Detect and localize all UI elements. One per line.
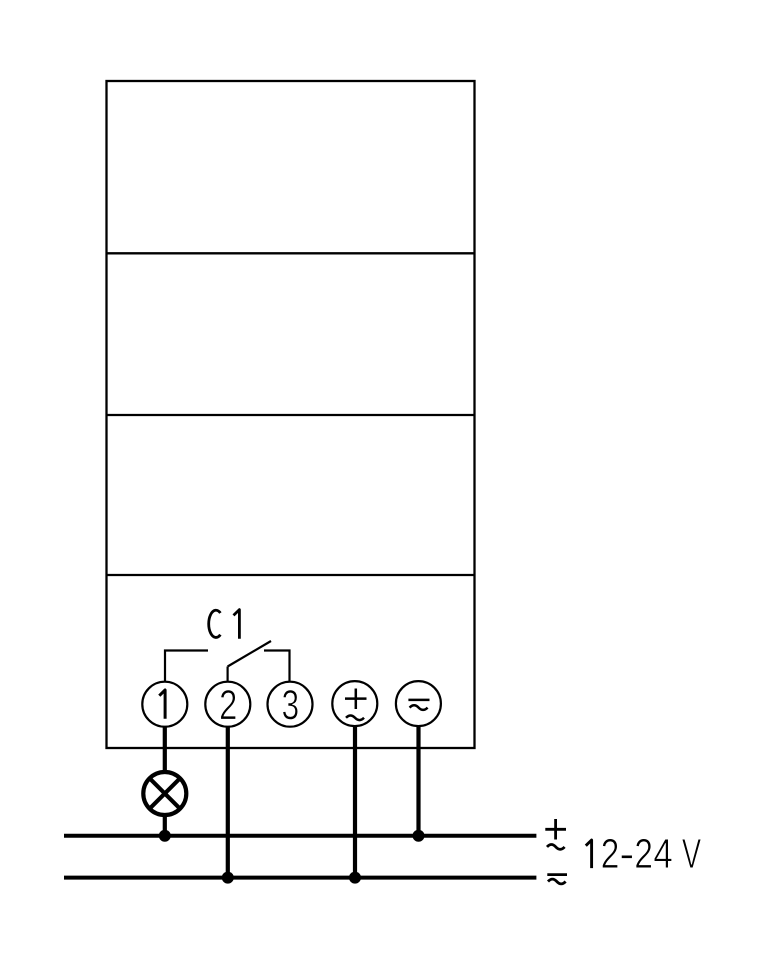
wire: terminal 2 to -/~ bus (226, 727, 230, 878)
label + on upper bus (545, 819, 566, 849)
lamp (143, 772, 186, 815)
junction dot +/~ wire lower bus (349, 872, 361, 884)
terminal -/~ (396, 681, 441, 726)
switch C1 contact bracket right (terminal 3) (264, 651, 290, 682)
pin number 2 (221, 690, 236, 719)
label 12-24 V (586, 840, 592, 868)
device module outline (107, 81, 475, 748)
switch C1 pivot wire (terminal 2) (227, 667, 229, 682)
switch C1 contact bracket left (terminal 1) (165, 651, 208, 682)
junction dot lamp/bus (159, 830, 171, 842)
pin number 1 (159, 690, 165, 719)
wire: terminal +/~ to lower bus (353, 726, 357, 878)
label - ~ on lower bus (547, 875, 567, 884)
junction dot -/~ wire upper bus (413, 830, 425, 842)
pin number 3 (283, 690, 298, 720)
supply bus upper (+/~) (64, 834, 536, 838)
wire: terminal -/~ to upper bus (416, 726, 420, 836)
terminal +/~ (332, 681, 377, 726)
label C1 (209, 610, 221, 637)
wire: terminal 1 to lamp (163, 727, 167, 772)
wire: lamp to +/~ bus (163, 815, 167, 836)
module divider line 2 (107, 414, 475, 416)
supply bus lower (-/~) (64, 876, 536, 880)
junction dot terminal 2/bus (222, 872, 234, 884)
terminal 3 (268, 682, 313, 727)
module divider line 1 (107, 252, 475, 254)
switch C1 blade (228, 641, 271, 667)
module divider line 3 (107, 574, 475, 576)
terminal 1 (142, 682, 187, 727)
terminal 2 (205, 682, 250, 727)
